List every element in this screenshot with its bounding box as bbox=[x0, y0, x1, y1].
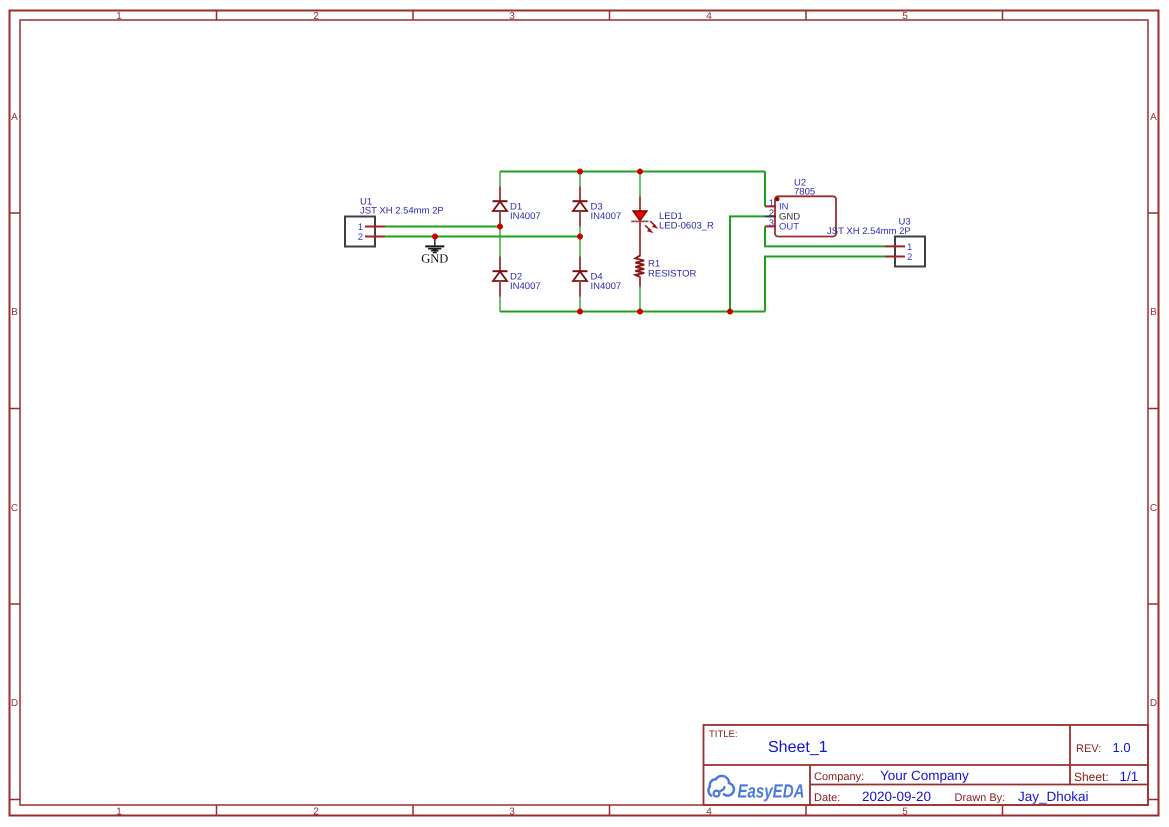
svg-text:A: A bbox=[1150, 112, 1157, 123]
svg-text:2: 2 bbox=[313, 807, 319, 818]
diode D4 bbox=[573, 257, 588, 297]
svg-text:3: 3 bbox=[509, 807, 515, 818]
svg-text:1/1: 1/1 bbox=[1120, 769, 1139, 784]
svg-text:Sheet_1: Sheet_1 bbox=[768, 739, 828, 756]
U1 pin 2 bbox=[365, 236, 385, 238]
svg-text:1: 1 bbox=[116, 11, 122, 22]
diode D2 bbox=[493, 257, 508, 297]
svg-text:Company:: Company: bbox=[814, 771, 864, 783]
svg-text:JST XH 2.54mm 2P: JST XH 2.54mm 2P bbox=[827, 226, 911, 237]
junction GND tap bbox=[432, 234, 438, 240]
svg-text:Sheet:: Sheet: bbox=[1074, 770, 1109, 784]
EasyEDA logo bbox=[708, 776, 804, 803]
wire U2 GND to bottom rail bbox=[730, 216, 765, 311]
svg-text:GND: GND bbox=[421, 252, 448, 266]
wire D4 bottom bbox=[579, 297, 581, 312]
ground GND bbox=[421, 237, 448, 266]
wire LED top bbox=[639, 172, 641, 198]
svg-text:IN4007: IN4007 bbox=[591, 281, 622, 292]
wire top rail bbox=[500, 171, 765, 173]
junction top rail LED bbox=[637, 169, 643, 175]
junction bottom rail R1 bbox=[637, 309, 643, 315]
led LED1 bbox=[631, 197, 657, 247]
wire top rail to U2 pin1 bbox=[764, 172, 766, 207]
svg-text:5: 5 bbox=[902, 807, 908, 818]
U2 pin 1 bbox=[765, 205, 776, 207]
U1 pin 1 bbox=[365, 226, 385, 228]
svg-text:Jay_Dhokai: Jay_Dhokai bbox=[1018, 789, 1089, 804]
svg-text:TITLE:: TITLE: bbox=[709, 729, 738, 740]
svg-text:5: 5 bbox=[902, 11, 908, 22]
junction bottom rail D4 bbox=[577, 309, 583, 315]
wire D2 bottom bbox=[499, 297, 501, 312]
svg-text:1: 1 bbox=[116, 807, 122, 818]
junction U1 pin1 node bbox=[497, 224, 503, 230]
svg-text:2: 2 bbox=[358, 232, 363, 243]
svg-text:1.0: 1.0 bbox=[1113, 740, 1131, 755]
junction top rail D3 bbox=[577, 169, 583, 175]
svg-text:IN4007: IN4007 bbox=[510, 211, 541, 222]
wire U1 pin1 to bridge node bbox=[385, 226, 500, 228]
svg-text:Your Company: Your Company bbox=[880, 768, 969, 783]
svg-text:2: 2 bbox=[313, 11, 319, 22]
connector U3 bbox=[885, 237, 925, 267]
svg-text:7805: 7805 bbox=[794, 187, 815, 198]
wire D3-D4 mid bbox=[579, 227, 581, 257]
title block bbox=[704, 725, 1149, 805]
svg-text:IN4007: IN4007 bbox=[591, 211, 622, 222]
wire bottom rail bbox=[500, 311, 765, 313]
junction bottom rail GND leg bbox=[727, 309, 733, 315]
svg-text:D: D bbox=[1150, 698, 1157, 709]
wire R1 bottom bbox=[639, 287, 641, 312]
connector U1 bbox=[345, 217, 385, 247]
wire D3 top bbox=[579, 172, 581, 188]
svg-text:3: 3 bbox=[509, 11, 515, 22]
U3 pin 2 bbox=[885, 256, 905, 258]
svg-text:B: B bbox=[1150, 307, 1157, 318]
regulator U2 bbox=[765, 196, 836, 236]
U2 pin 3 bbox=[765, 225, 776, 227]
svg-text:IN4007: IN4007 bbox=[510, 281, 541, 292]
svg-text:4: 4 bbox=[706, 11, 712, 22]
svg-text:A: A bbox=[11, 112, 18, 123]
U2 pin 2 bbox=[765, 215, 776, 217]
svg-text:C: C bbox=[11, 503, 18, 514]
wire U3 pin2 to bottom rail bbox=[765, 257, 885, 312]
svg-text:LED-0603_R: LED-0603_R bbox=[659, 220, 714, 231]
svg-text:D: D bbox=[11, 698, 18, 709]
wire D1-D2 mid bbox=[499, 227, 501, 257]
svg-text:JST XH 2.54mm 2P: JST XH 2.54mm 2P bbox=[360, 206, 444, 217]
svg-text:Drawn By:: Drawn By: bbox=[955, 792, 1006, 804]
resistor R1 bbox=[635, 247, 644, 287]
svg-text:3: 3 bbox=[769, 218, 774, 229]
junction U1 pin2 node bbox=[577, 234, 583, 240]
diode D3 bbox=[573, 187, 588, 227]
svg-text:OUT: OUT bbox=[779, 222, 799, 233]
svg-text:RESISTOR: RESISTOR bbox=[648, 268, 697, 279]
svg-text:REV:: REV: bbox=[1076, 743, 1101, 755]
diode D1 bbox=[493, 187, 508, 227]
svg-text:2: 2 bbox=[907, 252, 912, 263]
U3 pin 1 bbox=[885, 245, 905, 247]
svg-text:2020-09-20: 2020-09-20 bbox=[862, 789, 931, 804]
svg-text:C: C bbox=[1150, 503, 1157, 514]
svg-text:4: 4 bbox=[706, 807, 712, 818]
wire D1 top bbox=[499, 172, 501, 188]
wire U1 pin2 to D3/D4 node bbox=[385, 236, 580, 238]
wire U2 OUT to U3 pin1 bbox=[765, 226, 885, 246]
svg-text:B: B bbox=[11, 307, 18, 318]
svg-text:EasyEDA: EasyEDA bbox=[738, 782, 805, 803]
svg-text:Date:: Date: bbox=[814, 792, 840, 804]
